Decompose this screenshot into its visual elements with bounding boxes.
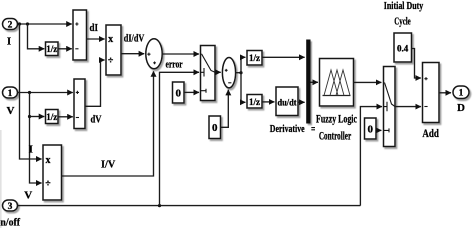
svg-text:0: 0 (367, 124, 373, 136)
constant 0 C (365, 118, 377, 139)
constant 0 B (209, 116, 221, 139)
wire add to output port D (439, 92, 451, 94)
svg-text:1: 1 (8, 89, 13, 99)
wire error to switch 1 (162, 53, 199, 55)
svg-text:x: x (108, 34, 113, 45)
mux bar (306, 40, 310, 124)
wire delay B to sum dV minus (58, 116, 73, 118)
fuzzy logic controller block (320, 59, 354, 107)
svg-text:3: 3 (8, 202, 13, 212)
constant 0 A (173, 82, 185, 103)
wire constant 0 C to switch 2 (376, 129, 381, 131)
input port 1 (V) (3, 87, 18, 99)
svg-text:Initial Duty: Initial Duty (384, 1, 424, 12)
output port 1 (D) (453, 86, 469, 99)
sum block dV (74, 79, 85, 129)
svg-text:2: 2 (8, 21, 13, 31)
svg-text:x: x (46, 155, 51, 166)
wire dV up to product divide input (85, 60, 105, 106)
junction sum 2 out (239, 71, 242, 74)
svg-text:I: I (29, 144, 33, 156)
on/off net from port 3 (18, 205, 361, 207)
wire delay D to derivative (262, 101, 274, 103)
input port 3 (on/off) (3, 200, 18, 212)
wire V to unit delay B (30, 116, 45, 118)
add block (423, 63, 440, 123)
switch 2 (384, 67, 396, 147)
svg-text:dI/dV: dI/dV (124, 32, 145, 44)
wire fuzzy to switch 2 (354, 81, 382, 83)
sum block dI (73, 10, 87, 60)
wire I/V to sum error bottom (62, 71, 154, 176)
constant 0.4 (394, 33, 412, 62)
svg-text:du/dt: du/dt (278, 98, 298, 108)
derivative block du/dt (276, 87, 298, 116)
wire to unit delay C (241, 57, 245, 72)
svg-text:dI: dI (90, 22, 99, 34)
svg-text:dV: dV (91, 113, 102, 125)
svg-text:1/z: 1/z (46, 112, 57, 122)
junction V branch (28, 91, 31, 94)
product I/V (43, 145, 62, 200)
svg-text:÷: ÷ (45, 178, 51, 189)
sum error (round) (146, 39, 162, 69)
wire mux to fuzzy controller (311, 81, 318, 83)
svg-text:I/V: I/V (101, 159, 115, 171)
switch 1 (201, 46, 216, 101)
wire delay A to sum dI minus (58, 48, 72, 50)
svg-text:on/off: on/off (0, 216, 20, 228)
junction on/off (158, 204, 161, 207)
wire derivative to mux (298, 101, 305, 103)
svg-text:Derivative: Derivative (270, 123, 305, 135)
wire switch 1 to sum 2 (215, 71, 221, 73)
wire dI to product x input (87, 38, 105, 40)
svg-text:Fuzzy Logic: Fuzzy Logic (316, 112, 357, 126)
wire V down to product I/V divide input (30, 93, 42, 184)
wire constant 0 B to sum 2 bottom (221, 90, 229, 128)
svg-text:Controller: Controller (319, 128, 352, 142)
wire to unit delay D (241, 73, 245, 103)
svg-text:V: V (7, 105, 15, 117)
wire on/off up to switch 1 control (160, 72, 200, 205)
svg-text:1: 1 (459, 89, 464, 99)
wire I down to product I/V input (20, 24, 42, 159)
mux label = (311, 128, 315, 130)
wire I down to unit delay A (28, 24, 45, 49)
input port 2 (I) (3, 19, 18, 31)
svg-text:0.4: 0.4 (397, 44, 409, 54)
unit delay 1/z A (46, 42, 59, 56)
junction I branch to product (18, 22, 21, 25)
junction I branch to delay (26, 22, 29, 25)
wire switch 2 to add minus (395, 106, 421, 108)
junction V delay branch (28, 115, 31, 118)
wire 0.4 to add plus (412, 49, 421, 79)
product dI/dV (106, 25, 121, 75)
svg-text:error: error (166, 59, 183, 71)
unit delay 1/z B (46, 110, 59, 124)
sum 2 (round) (222, 57, 235, 87)
svg-text:Add: Add (422, 126, 439, 140)
wire delay C to mux (262, 56, 305, 58)
unit delay 1/z D (247, 95, 262, 109)
wire on/off up to switch 2 control (360, 107, 382, 206)
svg-text:D: D (457, 102, 465, 114)
wire I to sum dI plus (18, 23, 72, 25)
unit delay 1/z C (247, 51, 262, 66)
svg-text:÷: ÷ (108, 55, 114, 66)
svg-text:1/z: 1/z (46, 44, 57, 54)
svg-text:0: 0 (212, 122, 218, 134)
svg-text:V: V (24, 190, 32, 202)
svg-text:I: I (7, 35, 11, 47)
svg-text:1/z: 1/z (249, 97, 260, 107)
wire constant 0 A to switch 1 (184, 91, 199, 93)
scan artifact left edge (0, 130, 2, 228)
svg-text:Cycle: Cycle (394, 16, 411, 27)
wire product dI/dV to sum error (121, 53, 144, 55)
svg-text:0: 0 (175, 88, 181, 100)
wire V to sum dV plus (18, 92, 73, 94)
wire sum 2 output split (236, 72, 241, 74)
svg-text:1/z: 1/z (249, 53, 260, 63)
